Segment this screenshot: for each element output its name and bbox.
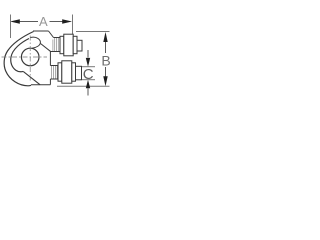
dimension C lower shaft xyxy=(87,88,89,95)
saddle bottom-left diagonal from cusp xyxy=(23,71,40,84)
dimension A line right segment xyxy=(50,21,71,23)
horizontal centerline xyxy=(2,56,48,58)
upper nut middle facet xyxy=(64,34,73,56)
lower rod bottom edge xyxy=(50,78,58,80)
extension line top for C xyxy=(82,66,95,68)
dimension A right arrowhead xyxy=(62,19,72,24)
saddle inner diagonal to upper rod xyxy=(41,44,52,52)
extension line top for B xyxy=(76,31,110,33)
saddle right edge between legs xyxy=(49,52,51,66)
clip body: outer U-bolt loop arc xyxy=(4,32,33,86)
dimension A left arrowhead xyxy=(10,19,20,24)
dimension B down arrowhead xyxy=(103,76,107,86)
upper rod bottom edge xyxy=(50,51,60,53)
svg-text:B: B xyxy=(101,53,110,69)
extension line bottom for B xyxy=(57,85,110,87)
upper nut left facet xyxy=(60,36,64,53)
upper stud end xyxy=(77,40,82,51)
lower nut left facet xyxy=(58,63,62,81)
saddle top line xyxy=(33,30,49,32)
upper rod threads xyxy=(53,38,58,51)
saddle right edge below lower rod xyxy=(49,79,51,85)
saddle right chamfer xyxy=(49,31,54,38)
dimension C up arrowhead xyxy=(86,80,90,89)
vertical centerline xyxy=(29,36,31,81)
clip body: inner U-bolt loop arc xyxy=(11,39,29,72)
extension line right for A xyxy=(72,15,74,35)
lower nut middle facet xyxy=(62,61,72,83)
lower rod threads xyxy=(52,66,58,79)
dimension B shaft upper xyxy=(105,41,107,53)
saddle top curl xyxy=(31,37,41,48)
upper rod top edge xyxy=(54,37,61,39)
dimension B up arrowhead xyxy=(103,32,107,42)
upper nut right facet xyxy=(73,36,77,53)
extension line left for A xyxy=(10,15,12,39)
dimension C upper shaft xyxy=(87,50,89,58)
svg-text:A: A xyxy=(39,14,48,29)
lower rod top edge xyxy=(50,65,58,67)
dimension A line left segment xyxy=(12,21,38,23)
saddle bottom line xyxy=(31,84,50,86)
svg-text:C: C xyxy=(83,66,94,83)
dimension C down arrowhead xyxy=(86,58,90,67)
lower stud end xyxy=(76,66,82,80)
lower nut right facet xyxy=(72,63,76,81)
background xyxy=(0,0,112,112)
hole circle xyxy=(21,48,39,66)
dimension B shaft lower xyxy=(105,67,107,77)
extension line bottom for C xyxy=(82,79,95,81)
